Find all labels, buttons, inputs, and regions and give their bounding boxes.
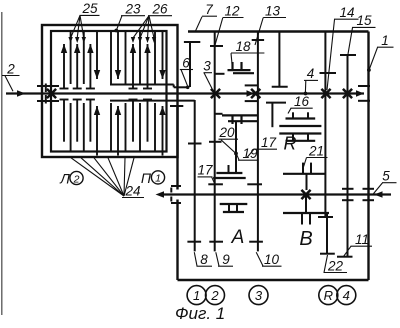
svg-text:14: 14 <box>339 5 354 20</box>
svg-text:6: 6 <box>182 55 190 70</box>
svg-text:П: П <box>141 170 152 186</box>
svg-text:2: 2 <box>210 288 219 303</box>
svg-text:5: 5 <box>382 169 390 184</box>
svg-text:18: 18 <box>235 39 251 54</box>
svg-text:4: 4 <box>307 66 315 81</box>
svg-text:R: R <box>324 288 333 303</box>
svg-text:1: 1 <box>193 288 200 303</box>
svg-text:3: 3 <box>203 59 211 74</box>
svg-text:17: 17 <box>197 163 213 178</box>
svg-text:А: А <box>231 227 245 248</box>
svg-text:1: 1 <box>155 173 161 185</box>
svg-text:Л: Л <box>59 171 70 187</box>
svg-text:В: В <box>299 228 312 250</box>
svg-text:21: 21 <box>308 143 324 158</box>
svg-text:1: 1 <box>381 33 389 48</box>
svg-text:8: 8 <box>200 252 208 267</box>
svg-text:4: 4 <box>343 288 350 303</box>
svg-text:25: 25 <box>81 1 98 16</box>
svg-text:15: 15 <box>356 13 372 28</box>
svg-text:9: 9 <box>222 252 230 267</box>
svg-text:11: 11 <box>355 232 369 247</box>
svg-text:Фиг. 1: Фиг. 1 <box>175 304 225 323</box>
svg-text:17: 17 <box>261 135 277 150</box>
svg-text:16: 16 <box>294 94 310 109</box>
svg-text:23: 23 <box>124 2 141 17</box>
svg-text:2: 2 <box>73 173 80 185</box>
svg-text:7: 7 <box>205 2 213 17</box>
svg-text:13: 13 <box>265 3 281 18</box>
svg-text:3: 3 <box>255 288 263 303</box>
svg-text:26: 26 <box>151 2 168 17</box>
svg-text:R: R <box>284 134 297 154</box>
svg-text:22: 22 <box>327 258 344 273</box>
svg-text:2: 2 <box>6 61 15 76</box>
svg-text:20: 20 <box>218 125 235 140</box>
svg-text:10: 10 <box>264 252 280 267</box>
svg-text:12: 12 <box>224 3 240 18</box>
